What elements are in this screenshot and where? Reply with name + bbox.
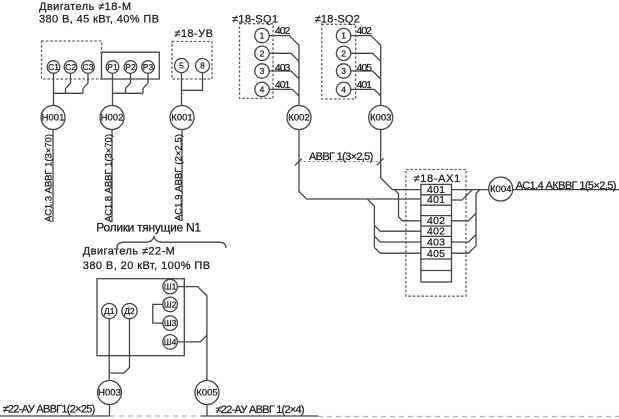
svg-text:С3: С3 (83, 62, 94, 72)
svg-text:Р2: Р2 (125, 62, 136, 72)
svg-text:2: 2 (341, 48, 346, 58)
svg-text:401: 401 (427, 194, 445, 206)
svg-text:К003: К003 (370, 113, 391, 124)
svg-text:8: 8 (200, 61, 205, 71)
svg-text:5: 5 (179, 61, 184, 71)
svg-text:К004: К004 (490, 184, 511, 195)
svg-text:402: 402 (357, 25, 373, 37)
svg-text:Двигатель ≠18-М: Двигатель ≠18-М (39, 1, 131, 13)
svg-text:4: 4 (260, 84, 265, 94)
svg-text:403: 403 (427, 237, 445, 249)
svg-text:401: 401 (357, 79, 373, 91)
svg-text:АВВГ 1(3×2,5): АВВГ 1(3×2,5) (309, 151, 373, 163)
svg-text:1: 1 (260, 31, 265, 41)
svg-text:403: 403 (275, 62, 291, 74)
svg-text:2: 2 (260, 48, 265, 58)
svg-text:Д1: Д1 (104, 306, 115, 316)
svg-text:380 В, 20 кВт, 100% ПВ: 380 В, 20 кВт, 100% ПВ (83, 260, 210, 272)
svg-text:380 В, 45 кВт, 40% ПВ: 380 В, 45 кВт, 40% ПВ (39, 14, 159, 26)
svg-text:≠18-SQ2: ≠18-SQ2 (315, 13, 360, 25)
svg-text:405: 405 (357, 62, 373, 74)
svg-text:≠22-АУ АВВГ 1(2×4): ≠22-АУ АВВГ 1(2×4) (216, 404, 305, 416)
svg-text:АС1.3 АВВГ 1(3×70): АС1.3 АВВГ 1(3×70) (44, 134, 55, 222)
svg-text:Ш4: Ш4 (164, 337, 177, 347)
svg-text:402: 402 (275, 25, 291, 37)
svg-text:3: 3 (341, 66, 346, 76)
svg-text:≠18-SQ1: ≠18-SQ1 (232, 13, 278, 25)
svg-text:Н002: Н002 (101, 113, 124, 124)
svg-text:4: 4 (341, 84, 346, 94)
svg-text:С2: С2 (65, 62, 76, 72)
svg-text:К002: К002 (288, 113, 309, 124)
svg-text:Ш3: Ш3 (164, 318, 177, 328)
svg-text:Ш2: Ш2 (164, 299, 177, 309)
svg-text:Д2: Д2 (124, 306, 135, 316)
svg-text:К005: К005 (196, 388, 217, 399)
svg-text:Н001: Н001 (42, 113, 65, 124)
svg-text:Н003: Н003 (98, 388, 121, 399)
svg-text:К001: К001 (171, 113, 192, 124)
svg-text:3: 3 (260, 66, 265, 76)
svg-text:≠22-АУ АВВГ1(2×25): ≠22-АУ АВВГ1(2×25) (3, 403, 96, 415)
svg-text:1: 1 (341, 31, 346, 41)
svg-text:Р1: Р1 (107, 62, 118, 72)
svg-text:401: 401 (275, 79, 291, 91)
svg-text:Двигатель ≠22-М: Двигатель ≠22-М (83, 246, 175, 258)
svg-text:≠18-УВ: ≠18-УВ (174, 28, 213, 40)
svg-text:АС1.4 АКВВГ 1(5×2,5): АС1.4 АКВВГ 1(5×2,5) (516, 180, 617, 192)
svg-text:АС1.9 АВВГ (2×2,5): АС1.9 АВВГ (2×2,5) (174, 134, 185, 221)
svg-text:405: 405 (427, 248, 445, 260)
svg-text:Ш1: Ш1 (164, 282, 177, 292)
svg-text:Р3: Р3 (143, 62, 154, 72)
svg-text:АС1.8 АВВГ 1(3×70): АС1.8 АВВГ 1(3×70) (104, 134, 115, 222)
svg-text:С1: С1 (48, 62, 59, 72)
